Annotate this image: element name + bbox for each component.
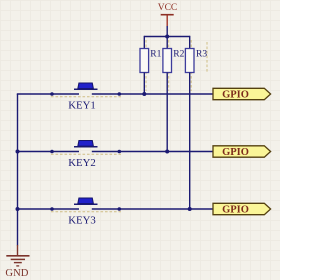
resistor R2 (163, 49, 185, 73)
svg-text:KEY1: KEY1 (68, 100, 96, 112)
svg-text:KEY2: KEY2 (68, 157, 96, 169)
svg-text:VCC: VCC (158, 3, 178, 13)
wire KEY1 row left (17, 93, 79, 95)
wire KEY3 row right (92, 208, 213, 210)
junction VCC node (165, 35, 169, 39)
svg-text:KEY3: KEY3 (68, 215, 96, 227)
wire KEY3 row left (17, 208, 79, 210)
ground GND (5, 245, 29, 279)
resistor R3 (185, 49, 207, 73)
svg-text:GPIO: GPIO (222, 90, 249, 101)
svg-text:R1: R1 (150, 50, 161, 60)
junction bus/KEY3 (16, 207, 20, 211)
switch KEY1 (50, 83, 121, 112)
wire R1 to KEY1 row (143, 73, 145, 95)
svg-text:GPIO: GPIO (222, 205, 249, 216)
wire KEY2 row right (92, 151, 213, 153)
wire rail to R1 (143, 36, 145, 49)
wire R3 to KEY3 row (189, 73, 191, 210)
junction bus/KEY2 (16, 150, 20, 154)
resistor R1 (140, 49, 162, 73)
wire R2 to KEY2 row (166, 73, 168, 152)
wire KEY1 row right (92, 93, 213, 95)
junction R2/KEY2 (165, 150, 169, 154)
port GPIO 3 (213, 203, 271, 215)
junction R1/KEY1 (142, 92, 146, 96)
switch KEY3 (50, 198, 121, 227)
power symbol VCC (158, 3, 178, 26)
port GPIO 2 (213, 146, 271, 158)
svg-text:GPIO: GPIO (222, 147, 249, 158)
wire top rail (144, 36, 189, 38)
svg-text:R3: R3 (196, 50, 207, 60)
junction R3/KEY3 (188, 207, 192, 211)
wire VCC stem to rail (166, 26, 168, 37)
svg-text:R2: R2 (173, 50, 184, 60)
svg-text:GND: GND (5, 268, 28, 279)
port GPIO 1 (213, 88, 271, 100)
wire rail to R3 (189, 36, 191, 49)
wire rail to R2 (166, 37, 168, 49)
wire KEY2 row left (17, 151, 79, 153)
wire left bus (17, 94, 19, 246)
switch KEY2 (50, 141, 121, 170)
